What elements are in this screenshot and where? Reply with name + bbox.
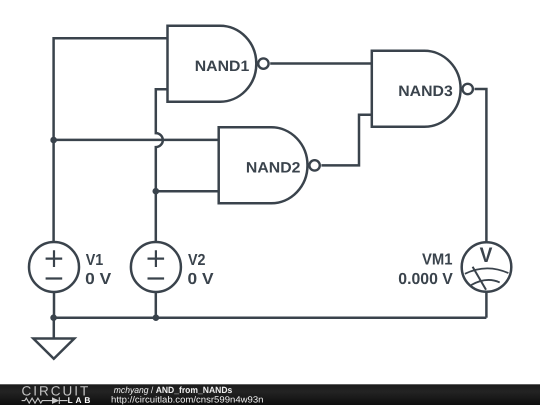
wire: NAND2 output to NAND3 input B (321, 115, 371, 166)
wire: V2 bottom to ground rail (155, 292, 158, 318)
svg-text:VM1: VM1 (422, 252, 453, 269)
svg-text:0 V: 0 V (188, 271, 214, 288)
wire: ground rail (54, 316, 487, 319)
voltmeter VM1 (398, 242, 511, 292)
junction node: V2 / NAND2-B branch (153, 188, 160, 195)
wire: branch from V2 net to NAND2 input B (156, 190, 219, 193)
voltage source V2 (131, 242, 214, 292)
svg-text:0 V: 0 V (85, 271, 111, 288)
wire: NAND1 output to NAND3 input A (270, 62, 372, 65)
wire: V1 bottom to ground rail (53, 292, 56, 318)
junction node: V1 / NAND2-A branch (50, 137, 57, 144)
wire: branch from V1 net to NAND2 input A (54, 139, 219, 142)
wire: V1 top up and over to NAND1 input A (54, 38, 168, 242)
svg-text:LAB: LAB (68, 395, 91, 405)
voltage source V1 (29, 242, 112, 292)
ground (33, 318, 74, 359)
svg-text:0.000 V: 0.000 V (398, 271, 453, 288)
junction node: V1 / ground rail (50, 314, 57, 321)
NAND gate NAND3 (372, 51, 473, 127)
junction node: V2 / ground rail (153, 314, 160, 321)
NAND gate NAND2 (219, 127, 320, 203)
wire: VM1 bottom to ground rail (485, 292, 488, 318)
wire: NAND1 input B down to V2 (hop over NAND2-A wire) (156, 89, 168, 242)
svg-text:NAND1: NAND1 (195, 58, 250, 75)
svg-text:NAND2: NAND2 (246, 160, 301, 177)
svg-text:mchyang / AND_from_NANDs: mchyang / AND_from_NANDs (114, 385, 232, 395)
CircuitLab logo: resistor zigzag + diode (22, 397, 68, 404)
svg-text:V1: V1 (86, 252, 104, 269)
NAND gate NAND1 (168, 26, 269, 102)
svg-text:V2: V2 (188, 252, 206, 269)
wire: NAND3 output to VM1 top (475, 89, 487, 242)
svg-text:V: V (480, 244, 493, 267)
svg-text:http://circuitlab.com/cnsr599n: http://circuitlab.com/cnsr599n4w93n (111, 395, 264, 405)
svg-text:NAND3: NAND3 (398, 83, 453, 100)
